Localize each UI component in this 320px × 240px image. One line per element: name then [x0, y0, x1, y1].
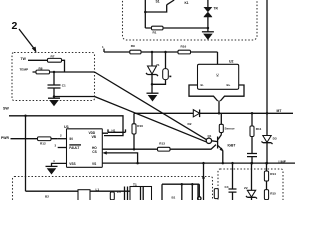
- wire aux bus: [162, 183, 199, 185]
- transistor Q1 IGBT: [217, 137, 219, 149]
- junction zener tap: [151, 51, 154, 54]
- resistor R18: [214, 189, 218, 199]
- svg-text:VSS: VSS: [69, 162, 75, 166]
- svg-text:R7: R7: [51, 54, 55, 58]
- junction MT/D3 rail: [266, 112, 269, 115]
- svg-text:S1: S1: [156, 0, 160, 4]
- svg-text:Z1: Z1: [156, 63, 160, 67]
- IC U1 controller: [67, 129, 103, 168]
- top box: left rail wire: [144, 0, 146, 28]
- resistor R8: [36, 70, 50, 74]
- svg-text:R9: R9: [131, 44, 135, 48]
- zener D3: [263, 136, 271, 143]
- wire VCC into U2: [217, 52, 219, 64]
- junction switch rail: [144, 11, 147, 14]
- capacitor C4: [232, 163, 234, 189]
- wire HO to gate resistor: [102, 145, 216, 150]
- ground (temperature box): [48, 97, 60, 99]
- svg-text:B1: B1: [172, 196, 176, 200]
- switch S1: [167, 0, 175, 5]
- rectifier block: [162, 184, 198, 201]
- svg-text:K1: K1: [185, 1, 189, 5]
- svg-text:C5: C5: [117, 190, 121, 194]
- svg-text:PWR: PWR: [1, 136, 9, 140]
- svg-text:H1: H1: [112, 128, 116, 132]
- resistor R1 (snubber): [152, 26, 164, 30]
- svg-text:VB: VB: [92, 135, 97, 139]
- wire TEMP: [33, 71, 95, 73]
- junction SW drop: [24, 115, 27, 118]
- capacitor C2 electrolytic: [165, 52, 167, 69]
- capacitor C1: [48, 85, 61, 88]
- svg-text:LINE: LINE: [279, 160, 287, 164]
- svg-text:B-: B-: [201, 83, 204, 87]
- svg-text:R14: R14: [270, 172, 276, 176]
- wire to switch: [145, 5, 166, 12]
- svg-text:VS: VS: [92, 162, 96, 166]
- wire SW drop to bottom bus: [25, 116, 27, 191]
- wire VCC rail: [104, 51, 218, 53]
- svg-text:FAULT: FAULT: [69, 146, 79, 150]
- capacitor C5: [125, 187, 128, 201]
- svg-text:TW: TW: [21, 57, 27, 61]
- terminal circle: [198, 197, 201, 200]
- pin 2 stub: [58, 138, 67, 140]
- svg-text:2: 2: [12, 20, 18, 32]
- svg-text:T1: T1: [133, 183, 137, 187]
- wire MT bus: [134, 112, 293, 114]
- capacitor C3: [247, 154, 257, 157]
- IC U2 driver block: [198, 64, 239, 89]
- svg-text:R15: R15: [270, 191, 276, 195]
- dashed box: top snubber box: [123, 0, 258, 40]
- resistor R11 from MT: [251, 113, 253, 126]
- svg-text:R11: R11: [256, 127, 262, 131]
- wire junction to C1: [53, 72, 55, 85]
- svg-text:D3: D3: [273, 137, 277, 141]
- wire C1 to ground node: [53, 88, 55, 97]
- svg-text:D2: D2: [188, 122, 192, 126]
- junction R11 string/LINE: [251, 162, 254, 165]
- svg-text:TR: TR: [214, 7, 219, 11]
- wire lower sense out: [54, 96, 95, 98]
- junction on TEMP wire: [53, 71, 56, 74]
- junction cap tap: [164, 51, 167, 54]
- pin 4 stub to ground: [52, 163, 67, 166]
- svg-text:U2: U2: [229, 59, 234, 63]
- svg-text:CS: CS: [92, 150, 96, 154]
- wire LINE drop to board: [203, 163, 205, 201]
- svg-text:R16: R16: [181, 45, 187, 49]
- svg-text:Z2: Z2: [244, 186, 248, 190]
- pin CS arrow stub: [102, 151, 107, 154]
- wire varistor down: [207, 17, 209, 32]
- ground (aux supply): [147, 92, 159, 94]
- wire gate stem: [218, 101, 220, 114]
- diode D2: [193, 110, 199, 117]
- junction R10/HO wire: [133, 148, 136, 151]
- callout arrow to temperature box: [19, 29, 35, 50]
- diagonal wire upper to Q1 base: [95, 72, 207, 140]
- svg-text:R10: R10: [137, 124, 143, 128]
- resistor R13: [158, 147, 171, 151]
- resistor Sensor on collector: [219, 124, 223, 132]
- svg-text:Q1: Q1: [208, 134, 212, 138]
- svg-text:IGBT: IGBT: [228, 144, 236, 148]
- ground (U1 VSS): [46, 165, 58, 167]
- svg-text:R1: R1: [153, 31, 157, 35]
- svg-text:TEMP: TEMP: [20, 68, 29, 72]
- dashed box: bottom-right divider: [218, 169, 283, 205]
- svg-text:R13: R13: [159, 142, 165, 146]
- svg-text:U1: U1: [64, 125, 69, 129]
- wire bottom bus: [26, 190, 131, 192]
- wire R7 to corner: [62, 60, 65, 72]
- wire TW: [28, 59, 48, 61]
- resistor R14: [266, 163, 268, 171]
- junction MT/collector: [218, 112, 221, 115]
- resistor R16: [178, 50, 191, 54]
- svg-text:Sensor: Sensor: [225, 126, 236, 130]
- component H1 on VDD stub: [102, 129, 125, 133]
- wire SW bus: [9, 116, 123, 136]
- zener Z1: [148, 66, 157, 74]
- right rail wire: [266, 0, 268, 136]
- dashed box: bottom-left power board: [13, 177, 213, 207]
- wire bottom of snubber: [145, 27, 208, 29]
- svg-text:SW: SW: [3, 107, 9, 111]
- dashed box: temperature sense (box 2): [12, 53, 95, 101]
- U2 output bracket: [189, 85, 218, 101]
- resistor R7: [48, 58, 62, 62]
- transformer T1: [130, 187, 152, 202]
- ground (snubber box): [202, 31, 214, 33]
- resistor R17: [110, 192, 114, 200]
- svg-text:C1: C1: [62, 84, 66, 88]
- resistor R10 hanging from MT corner: [133, 113, 135, 149]
- diagonal wire lower to Q1 base: [95, 97, 207, 142]
- svg-text:B+: B+: [227, 83, 231, 87]
- zener Z2: [251, 163, 253, 190]
- svg-text:R12: R12: [40, 142, 46, 146]
- connector J1: [78, 190, 90, 202]
- varistor TR (bidirectional): [207, 0, 209, 7]
- wire LINE bus: [102, 162, 295, 164]
- junction MT/R11: [251, 112, 254, 115]
- svg-text:C4: C4: [225, 185, 229, 189]
- svg-text:B2: B2: [45, 195, 49, 199]
- junction CS/LINE: [136, 162, 139, 165]
- wire PWR: [11, 138, 58, 140]
- resistor R15: [266, 181, 268, 190]
- junction D3/LINE: [266, 162, 269, 165]
- svg-text:L1: L1: [96, 187, 100, 191]
- resistor R12: [38, 137, 52, 141]
- wire zener to ground: [151, 75, 153, 94]
- svg-text:R8: R8: [39, 66, 43, 70]
- wire to zener Z1: [151, 52, 153, 66]
- resistor R9: [130, 50, 141, 54]
- junction emitter/LINE: [222, 162, 225, 165]
- pin 3 stub: [58, 147, 67, 149]
- node 1 tick on VCC wire: [103, 49, 105, 52]
